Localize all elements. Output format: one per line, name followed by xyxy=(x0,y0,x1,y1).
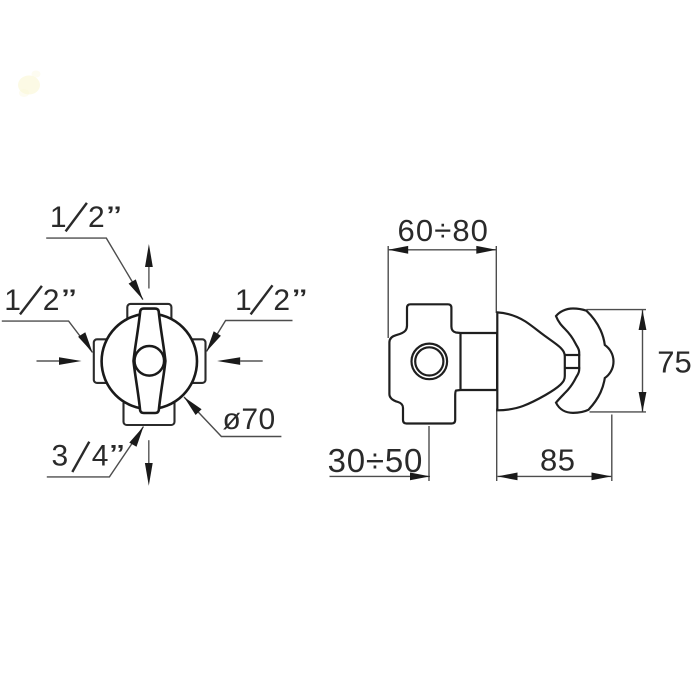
extension line 75 top xyxy=(586,309,646,311)
svg-text:”: ” xyxy=(110,438,124,472)
svg-text:30÷50: 30÷50 xyxy=(328,442,424,479)
handle hub lines xyxy=(566,354,581,356)
label 1/2" left xyxy=(4,283,76,317)
escutcheon bell xyxy=(497,312,565,410)
svg-text:85: 85 xyxy=(540,443,575,478)
svg-text:2: 2 xyxy=(273,284,290,317)
svg-text:”: ” xyxy=(62,283,76,317)
handle (side, crescent) xyxy=(556,309,613,413)
valve body circle (ø70) xyxy=(102,314,197,409)
leader bottom 3/4" xyxy=(47,427,144,477)
flow arrow up (outlet top) xyxy=(145,244,153,289)
flow arrow left (inlet) xyxy=(37,357,82,365)
stem flange line xyxy=(459,333,461,390)
flow arrow down (outlet bottom) xyxy=(145,440,153,486)
leader right 1/2" xyxy=(207,321,293,352)
side port outer circle xyxy=(412,344,448,380)
port tab left (1/2") xyxy=(94,339,112,383)
svg-text:1: 1 xyxy=(4,284,21,317)
svg-text:60÷80: 60÷80 xyxy=(398,213,489,248)
dimension 75 xyxy=(639,310,692,412)
svg-text:1: 1 xyxy=(50,201,67,234)
leader ø70 xyxy=(184,397,281,437)
side view valve body (cross) xyxy=(389,304,497,423)
label 1/2" top xyxy=(50,200,121,234)
svg-text:4: 4 xyxy=(92,440,109,473)
side port inner circle xyxy=(415,347,443,375)
flow arrow right (inlet) xyxy=(217,357,263,365)
dimension 85 xyxy=(498,443,612,481)
lever handle (front) xyxy=(134,309,166,413)
extension line 75 bottom xyxy=(590,411,647,413)
extension line 60÷80 right / wall top xyxy=(495,246,497,313)
svg-text:3: 3 xyxy=(52,440,69,473)
paper stain blob xyxy=(18,71,41,98)
port tab bottom (3/4") xyxy=(124,400,175,425)
lever hub circle xyxy=(135,346,165,376)
svg-text:ø70: ø70 xyxy=(223,403,276,436)
extension line handle right (85 right) xyxy=(611,415,613,482)
svg-text:75: 75 xyxy=(657,345,691,380)
label 1/2" right xyxy=(235,283,307,317)
svg-text:”: ” xyxy=(107,200,121,234)
dimension 60÷80 xyxy=(388,213,496,254)
label 3/4" xyxy=(52,438,125,472)
svg-text:2: 2 xyxy=(88,201,105,234)
extension line 60÷80 left xyxy=(387,246,389,338)
extension line wall bottom (85 left) xyxy=(496,409,498,481)
port tab top (1/2") xyxy=(127,304,171,326)
extension line body centre (30÷50 right) xyxy=(428,426,430,481)
port tab right (1/2") xyxy=(188,339,206,383)
dimension 30÷50 xyxy=(328,442,430,480)
svg-text:2: 2 xyxy=(43,284,60,317)
svg-text:”: ” xyxy=(292,283,306,317)
leader top 1/2" xyxy=(46,238,143,300)
leader left 1/2" xyxy=(2,321,93,352)
svg-text:1: 1 xyxy=(235,284,252,317)
